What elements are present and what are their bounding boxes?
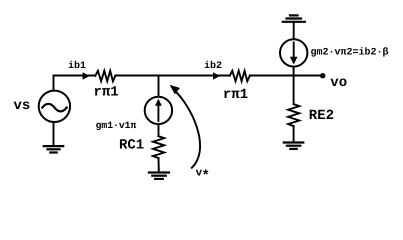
- svg-text:vs: vs: [14, 98, 31, 114]
- svg-text:ib2: ib2: [204, 60, 222, 72]
- inverted ground (top, above gm2 source): [283, 15, 305, 21]
- resistor r-pi-1 (left) zigzag: [95, 71, 115, 81]
- ground (under vs): [44, 146, 63, 152]
- svg-text:*: *: [202, 169, 210, 185]
- wire: RE2 to ground: [293, 126, 295, 142]
- current source gm2*vpi2 circle: [280, 39, 307, 66]
- arrowhead inside gm2 (down): [290, 57, 298, 65]
- wire: output node down to RE2: [293, 76, 295, 105]
- svg-text:rπ1: rπ1: [223, 87, 248, 103]
- resistor r-pi-1 (right) zigzag: [230, 71, 250, 81]
- svg-text:RE2: RE2: [309, 108, 334, 124]
- wire: center node vertical to current source gm1: [158, 76, 160, 97]
- wire: top-left horizontal from vs corner to r-pi-1: [54, 75, 96, 77]
- svg-text:gm1·v1π: gm1·v1π: [96, 120, 137, 131]
- ground (under RE2): [284, 143, 304, 149]
- arrowhead inside gm1 (up): [155, 99, 162, 106]
- wire: top ground to gm2 source: [293, 22, 295, 39]
- voltage source vs circle: [39, 91, 70, 122]
- svg-text:vo: vo: [330, 75, 347, 91]
- arrowhead ib1: [83, 72, 90, 79]
- arrow inside gm1 source (up): [157, 105, 159, 121]
- current source gm1*v1pi circle: [145, 97, 172, 124]
- svg-text:ib1: ib1: [68, 60, 86, 72]
- svg-text:rπ1: rπ1: [94, 85, 119, 101]
- ground (under RC1): [149, 173, 169, 179]
- wire: gm1 source to RC1: [158, 124, 160, 136]
- arrowhead ib2: [213, 72, 220, 79]
- curved arrow from V* to gm1 source: [174, 90, 201, 168]
- arrow inside gm2 source (down): [293, 43, 295, 59]
- sine symbol inside vs: [42, 104, 66, 112]
- svg-text:RC1: RC1: [119, 138, 144, 154]
- wire: r-pi-1 to center node: [115, 75, 158, 77]
- wire: vs bottom to ground: [53, 123, 55, 146]
- wire: vs vertical riser: [53, 76, 55, 90]
- resistor RC1 zigzag (vertical): [153, 136, 164, 158]
- resistor RE2 zigzag (vertical): [288, 104, 299, 126]
- wire: center node to r-pi-1 (right): [159, 75, 230, 77]
- wire: RC1 to ground: [158, 158, 160, 172]
- wire: gm2 source to output node: [293, 67, 295, 76]
- wire: right resistor to vo terminal: [250, 75, 322, 77]
- svg-text:gm2·vπ2=ib2·β: gm2·vπ2=ib2·β: [311, 46, 389, 58]
- node dot vo terminal: [320, 73, 325, 78]
- arrowhead of V* curved arrow: [170, 85, 180, 94]
